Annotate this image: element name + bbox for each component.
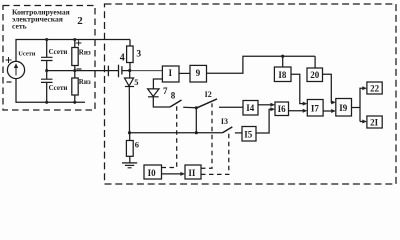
wire: top rail down to block 20: [314, 56, 316, 68]
switch 8 (contact): [170, 100, 182, 107]
dashed control: block 10 to switch 8: [162, 105, 177, 168]
wire: block 18 to block 17 (arrow): [291, 74, 306, 103]
svg-text:2: 2: [77, 15, 83, 27]
wire: block 1 to diode VD7: [153, 79, 162, 89]
svg-text:I4: I4: [246, 103, 255, 113]
svg-text:Rиз: Rиз: [79, 49, 91, 57]
label: Контролируемая электрическая сеть: [12, 8, 70, 31]
wire: node B down to lower rail: [195, 108, 197, 133]
diode VD5: [129, 71, 131, 79]
wire: VD7 to switch 8: [153, 97, 170, 107]
svg-text:II: II: [188, 168, 196, 178]
svg-text:I3: I3: [221, 117, 228, 126]
wire: block 1 to block 9: [179, 72, 190, 74]
svg-text:4: 4: [120, 52, 125, 63]
wire: bottom (-) rail of network: [16, 79, 85, 103]
svg-text:I6: I6: [278, 104, 287, 114]
svg-text:22: 22: [370, 84, 380, 94]
svg-text:7: 7: [163, 86, 168, 96]
svg-text:Cсети: Cсети: [49, 48, 68, 56]
node C (top rail junction): [281, 55, 284, 58]
svg-text:Cсети: Cсети: [49, 84, 68, 92]
wire: C branch vertical: [46, 40, 48, 103]
svg-text:Rиз: Rиз: [79, 78, 91, 86]
svg-text:20: 20: [310, 70, 320, 80]
wire: block 10 to block 11 (arrow): [162, 173, 184, 175]
block 16: [275, 102, 289, 116]
capacitor Cсети (upper): [41, 57, 53, 60]
svg-text:I9: I9: [339, 103, 348, 113]
wire: block 16 to block 17 (arrow): [289, 110, 306, 112]
block 21: [367, 116, 382, 128]
capacitor Cсети (lower): [41, 79, 53, 82]
svg-text:I0: I0: [148, 168, 157, 178]
label + (source top): [6, 57, 12, 63]
outer dashed box: monitoring device boundary: [105, 4, 397, 184]
block 22: [367, 82, 382, 94]
block 1: [162, 66, 179, 82]
svg-text:Uсети: Uсети: [18, 51, 36, 58]
block 20: [307, 68, 323, 82]
block 17: [307, 100, 323, 117]
svg-text:I2: I2: [205, 90, 212, 99]
block 14: [243, 101, 258, 116]
svg-text:I8: I8: [278, 70, 287, 80]
wire: block 9 to top distribution rail: [207, 56, 316, 73]
wire: network middle node to device input: [47, 70, 109, 72]
node B (switch junction): [195, 106, 198, 109]
wire: node C down to block 18: [282, 56, 284, 67]
wire: node A to block 1: [130, 70, 163, 72]
wire: top (+) rail of network: [16, 40, 130, 62]
svg-text:9: 9: [196, 68, 201, 78]
block 11: [185, 165, 201, 179]
svg-text:3: 3: [136, 49, 141, 59]
junction dots network: [45, 38, 76, 104]
wire: VD5 to lower rail: [128, 87, 130, 133]
wire: block 14 to block 16 (arrow): [258, 104, 274, 106]
block 19: [336, 99, 352, 117]
svg-text:I5: I5: [244, 130, 253, 140]
label - (between resistors): [77, 68, 82, 70]
label - (source bottom): [7, 81, 12, 83]
label + (Rиз upper top): [76, 40, 82, 46]
block 18: [274, 67, 291, 82]
svg-text:8: 8: [171, 91, 176, 101]
lower rail wire: [130, 132, 223, 134]
resistor Rиз (lower): [72, 78, 78, 95]
block 9: [190, 65, 207, 82]
svg-text:5: 5: [134, 77, 138, 87]
diode VD7: [148, 89, 159, 97]
resistor R3 (input resistor): [129, 40, 131, 47]
resistor R6: [129, 133, 131, 141]
svg-text:сеть: сеть: [12, 22, 27, 31]
block 10: [144, 165, 162, 179]
svg-text:I: I: [169, 68, 173, 78]
wire: R branch vertical: [74, 40, 76, 103]
switch 13 (contact): [222, 127, 232, 133]
wire: block 17 to block 19 (arrow): [323, 110, 334, 112]
wire: block 20 to block 19 (arrow): [323, 74, 335, 102]
source G (network voltage source): [7, 61, 24, 78]
dashed box: controlled network (2): [3, 6, 95, 111]
resistor Rиз (upper): [72, 48, 78, 66]
dashed control: block 11 to switch 13: [201, 130, 229, 174]
wire: block 19 output split: [352, 88, 366, 121]
capacitor C4 (coupling capacitor): [107, 66, 109, 77]
node A (R3/C4/VD5 junction): [128, 69, 131, 72]
wire: block 15 to block 16 (arrow): [256, 109, 274, 133]
switch 12 (contact): [197, 99, 217, 108]
dashed control: block 11 to switch 12: [201, 103, 212, 168]
svg-text:2I: 2I: [370, 118, 379, 128]
svg-text:6: 6: [135, 140, 139, 150]
ground: [129, 156, 131, 163]
svg-text:I7: I7: [311, 104, 320, 114]
block 15: [242, 127, 256, 142]
